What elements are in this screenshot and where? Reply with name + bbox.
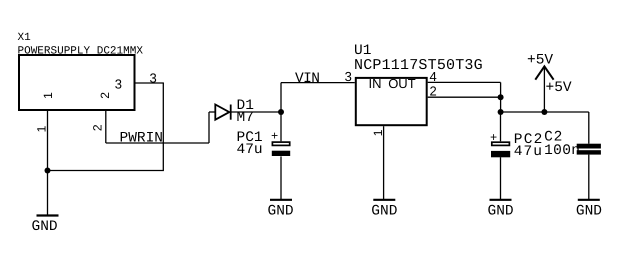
svg-text:2: 2	[91, 124, 105, 131]
svg-text:GND: GND	[488, 204, 514, 220]
regulator U1 body	[356, 78, 427, 125]
ground GND3 bar	[373, 199, 395, 201]
capacitor PC2 bottom plate	[491, 151, 510, 157]
wire: rail down to PC2	[500, 112, 502, 141]
svg-text:47u: 47u	[237, 142, 263, 158]
svg-text:3: 3	[115, 77, 122, 92]
wire: PC2 to GND	[500, 157, 502, 199]
wire: D1 cathode to node VIN	[231, 111, 281, 113]
wire: PC1 to GND	[280, 156, 282, 199]
junction: pin1/pin3/GND node	[45, 168, 51, 174]
wire: junction horizontal to pin3 riser	[48, 170, 164, 172]
wire: X1 pin 3 stub	[136, 82, 164, 84]
svg-text:1: 1	[34, 125, 48, 132]
svg-text:+5V: +5V	[527, 53, 553, 69]
wire: X1 pin 2 drop	[105, 111, 107, 143]
svg-text:1: 1	[41, 92, 55, 99]
power +5V stem	[543, 67, 545, 112]
svg-text:3: 3	[150, 71, 157, 86]
svg-text:100n: 100n	[544, 143, 580, 159]
diode D1 cathode bar	[230, 105, 232, 120]
ground GND4 bar	[490, 199, 512, 201]
svg-text:4: 4	[430, 69, 437, 84]
svg-text:GND: GND	[576, 204, 602, 220]
diode D1 triangle	[215, 105, 229, 120]
capacitor C2 top plate	[577, 144, 601, 149]
connector X1 body	[19, 55, 135, 110]
wire: C2 to GND	[588, 155, 590, 200]
wire: PWRIN horizontal	[106, 142, 209, 144]
wire: VIN to U1 pin 3	[281, 82, 355, 84]
power +5V arrow chevron	[535, 66, 553, 79]
svg-text:47u: 47u	[514, 144, 543, 160]
capacitor PC1 top plate	[272, 142, 289, 145]
svg-text:X1: X1	[18, 32, 32, 44]
ground GND5 bar	[578, 199, 600, 201]
wire: pin3 riser vertical	[162, 83, 164, 171]
junction: node VIN	[278, 109, 284, 115]
capacitor PC2 top plate	[492, 142, 510, 145]
svg-text:GND: GND	[371, 204, 397, 220]
wire: riser to D1 anode	[208, 112, 210, 143]
svg-text:2: 2	[430, 84, 437, 99]
junction: pin2 joins bus	[498, 94, 504, 100]
junction: +5V symbol tap	[541, 109, 547, 115]
wire: U1 pin 2 (OUT sense)	[428, 96, 501, 98]
svg-text:1: 1	[371, 129, 385, 136]
svg-text:+5V: +5V	[546, 80, 572, 96]
svg-text:OUT: OUT	[388, 76, 416, 91]
ground GND1 bar	[37, 214, 59, 216]
capacitor PC1 bottom plate	[272, 151, 290, 156]
svg-text:VIN: VIN	[295, 71, 319, 87]
svg-text:GND: GND	[268, 204, 294, 220]
wire: rail down to C2	[588, 112, 590, 144]
wire: U1 pin 4 (OUT)	[428, 81, 501, 83]
junction: +5V rail tap	[498, 109, 504, 115]
wire: X1 pin 1 down to GND	[47, 111, 49, 215]
svg-text:GND: GND	[32, 219, 58, 235]
wire: U1 pin 1 to GND	[383, 126, 385, 199]
wire: +5V rail horizontal	[501, 111, 589, 113]
svg-text:PWRIN: PWRIN	[120, 131, 164, 147]
svg-text:3: 3	[345, 69, 352, 84]
wire: anode lead	[209, 111, 215, 113]
svg-text:M7: M7	[237, 110, 254, 126]
wire: VIN riser	[280, 83, 282, 112]
svg-text:2: 2	[98, 92, 112, 99]
wire: node VIN down to PC1	[280, 112, 282, 141]
svg-text:IN: IN	[369, 76, 382, 91]
svg-text:NCP1117ST50T3G: NCP1117ST50T3G	[354, 57, 483, 74]
capacitor C2 bottom plate	[577, 150, 601, 154]
wire: OUT bus vertical	[500, 82, 502, 112]
ground GND2 bar	[270, 199, 292, 201]
